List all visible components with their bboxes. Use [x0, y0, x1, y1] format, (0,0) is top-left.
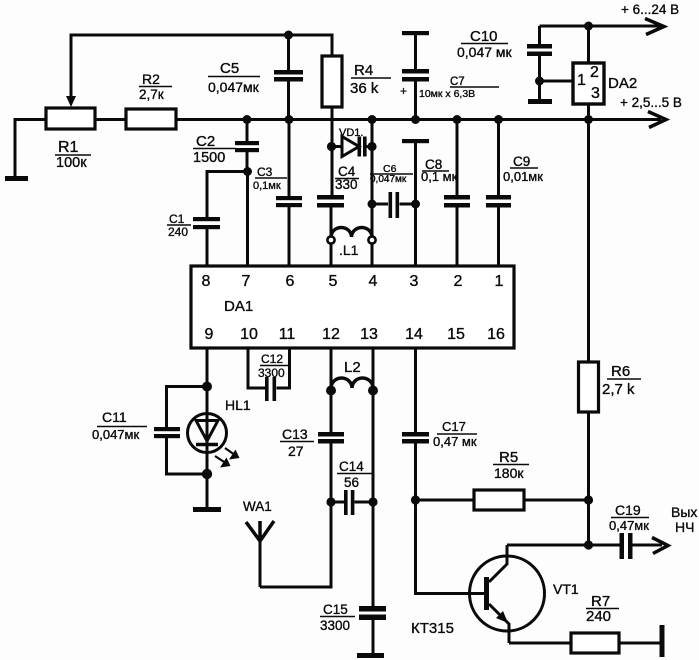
svg-text:C19: C19 — [615, 502, 641, 518]
svg-text:5: 5 — [329, 273, 338, 290]
LED light arrow 1 — [225, 448, 237, 457]
svg-text:C2: C2 — [196, 133, 215, 150]
wire main +2.5..5V bus — [176, 118, 661, 121]
svg-text:13: 13 — [360, 326, 378, 343]
svg-text:WA1: WA1 — [243, 499, 272, 514]
svg-text:DA2: DA2 — [608, 75, 637, 92]
svg-text:0,47мк: 0,47мк — [609, 518, 649, 533]
node C17 bottom / R5 left — [411, 495, 420, 504]
wire C10 bottom to ground — [538, 81, 541, 99]
svg-text:R6: R6 — [611, 363, 630, 380]
svg-text:C11: C11 — [102, 409, 127, 425]
wire R5 left — [416, 499, 475, 502]
wire pin9 column down — [206, 348, 209, 413]
node C6 right — [411, 200, 420, 209]
wire junction to C1 elbow — [207, 172, 248, 218]
capacitor C10 — [538, 26, 541, 81]
wire pin3 column with top stub — [402, 139, 429, 143]
svg-text:+ 2,5...5 В: + 2,5...5 В — [620, 95, 682, 110]
svg-text:C13: C13 — [282, 426, 308, 442]
node HL1 bottom junction — [202, 469, 212, 479]
regulator DA2 — [573, 63, 604, 104]
svg-text:0,47 мк: 0,47 мк — [433, 434, 477, 449]
ground (under C10) — [528, 99, 552, 104]
svg-text:C10: C10 — [470, 28, 498, 45]
pin numbers top row — [202, 273, 504, 290]
capacitor C5 — [287, 35, 290, 120]
node VD1 cathode — [367, 142, 376, 151]
wire R4 bottom through bus to VD1 anode — [331, 107, 334, 195]
svg-text:9: 9 — [205, 326, 214, 343]
svg-text:DA1: DA1 — [224, 298, 253, 315]
svg-text:0,047мк: 0,047мк — [370, 174, 407, 185]
svg-text:6: 6 — [286, 273, 295, 290]
potentiometer R1 wiper arrow — [66, 96, 76, 107]
svg-text:3300: 3300 — [320, 618, 350, 633]
transistor VT1 — [470, 556, 545, 631]
arrow +6...24 В input — [645, 19, 664, 35]
svg-text:C12: C12 — [261, 352, 283, 366]
wire collector row — [507, 544, 589, 547]
svg-text:0,1 мк: 0,1 мк — [421, 169, 458, 184]
svg-text:C14: C14 — [339, 459, 364, 474]
svg-text:36 k: 36 k — [350, 80, 379, 97]
svg-text:.L1: .L1 — [339, 242, 359, 258]
svg-text:11: 11 — [279, 326, 296, 343]
node collector / C19 junction — [584, 540, 593, 549]
svg-text:10: 10 — [240, 326, 258, 343]
node C5 bottom on bus — [285, 115, 294, 124]
svg-text:VT1: VT1 — [553, 581, 579, 597]
node DA2 pin2 top — [584, 22, 593, 31]
LED HL1 — [188, 414, 227, 453]
node C8 on bus — [453, 115, 462, 124]
svg-text:0,01мк: 0,01мк — [503, 169, 543, 184]
wire pin7 column — [246, 172, 249, 267]
capacitor C6 — [372, 203, 416, 206]
svg-text:14: 14 — [405, 326, 423, 343]
node C14 right — [368, 497, 377, 506]
resistor R6 — [579, 362, 599, 412]
inductor L2 — [331, 348, 373, 390]
svg-text:R4: R4 — [354, 62, 373, 79]
IC DA1 — [191, 266, 514, 348]
wire HL1 bottom to ground — [206, 453, 209, 507]
svg-text:0,047 мк: 0,047 мк — [457, 44, 513, 60]
svg-text:C15: C15 — [323, 602, 348, 617]
node C10 bottom — [535, 77, 544, 86]
wire C11 top branch — [167, 387, 208, 428]
resistor R7 — [571, 633, 619, 653]
node pin9 / C11 top junction — [202, 382, 212, 392]
svg-text:3: 3 — [591, 85, 600, 102]
svg-text:2: 2 — [590, 64, 599, 81]
capacitor C13 — [330, 390, 333, 502]
svg-text:8: 8 — [202, 273, 211, 290]
svg-text:1: 1 — [577, 72, 586, 89]
terminal bar right of R7 — [660, 625, 665, 657]
svg-text:16: 16 — [487, 326, 505, 343]
svg-text:L2: L2 — [344, 359, 361, 376]
svg-text:R1: R1 — [58, 139, 79, 156]
svg-text:27: 27 — [288, 443, 304, 459]
inductor L1 — [331, 227, 372, 237]
capacitor C15 — [359, 606, 386, 612]
wire R1 left to ground — [15, 120, 46, 177]
pin numbers bottom row — [205, 326, 505, 343]
svg-text:+ 6...24 В: + 6...24 В — [621, 2, 679, 17]
capacitor C1 — [193, 217, 220, 221]
capacitor C11 — [154, 427, 180, 431]
svg-text:12: 12 — [322, 326, 340, 343]
arrow output Вых НЧ — [652, 538, 668, 554]
capacitor C2 — [246, 120, 249, 172]
wire pin4 column — [371, 120, 374, 267]
svg-text:0,047мк: 0,047мк — [208, 79, 260, 95]
node C2 top on bus — [243, 115, 252, 124]
capacitor C7 electrolytic — [402, 31, 429, 35]
wire R5 right — [524, 499, 589, 502]
node C2 bottom junction — [243, 167, 252, 176]
ground (under C15) — [357, 653, 384, 658]
capacitor C3 — [288, 120, 291, 267]
node R5 right on R6 column — [584, 495, 593, 504]
svg-text:C1: C1 — [169, 212, 185, 226]
node pin4 column on bus — [368, 115, 377, 124]
diode VD1 (varicap) — [331, 145, 372, 148]
node VD1 anode — [327, 142, 336, 151]
svg-text:0,047мк: 0,047мк — [92, 427, 139, 442]
node C7 on bus — [411, 115, 420, 124]
svg-text:7: 7 — [242, 273, 251, 290]
capacitor C14 between columns 12 and 13 — [331, 501, 373, 504]
resistor R2 — [126, 109, 176, 129]
svg-text:+: + — [400, 84, 407, 98]
svg-text:R5: R5 — [499, 449, 518, 466]
svg-text:C17: C17 — [442, 419, 466, 434]
svg-text:2: 2 — [454, 273, 463, 290]
svg-text:0,1мк: 0,1мк — [253, 180, 281, 192]
svg-text:3300: 3300 — [258, 366, 285, 380]
wire R6 column — [587, 120, 590, 546]
node C14 left — [326, 497, 335, 506]
capacitor C9 — [497, 120, 500, 267]
svg-text:C9: C9 — [513, 154, 530, 169]
node DA2 pin3 on bus — [584, 115, 593, 124]
wire DA2 pin3 down to bus — [587, 104, 590, 120]
ground (left) — [5, 176, 28, 181]
svg-text:HL1: HL1 — [225, 397, 251, 413]
resistor R1 (potentiometer body) — [46, 108, 95, 129]
svg-text:КТ315: КТ315 — [411, 620, 454, 637]
svg-text:56: 56 — [344, 475, 359, 490]
svg-text:4: 4 — [369, 273, 378, 290]
svg-text:2,7 k: 2,7 k — [602, 381, 635, 398]
svg-text:C5: C5 — [220, 60, 239, 77]
wire top feedback from R1 wiper to C5/R4 — [71, 35, 332, 98]
svg-text:100к: 100к — [56, 155, 87, 171]
svg-text:330: 330 — [335, 177, 358, 192]
wire column 12 down to antenna elbow — [260, 502, 331, 587]
svg-text:НЧ: НЧ — [675, 519, 694, 535]
svg-text:C3: C3 — [257, 165, 273, 179]
wire R1 to R2 — [95, 118, 126, 121]
svg-text:1: 1 — [495, 273, 504, 290]
svg-text:1500: 1500 — [193, 150, 225, 166]
resistor R4 — [322, 56, 342, 107]
svg-text:15: 15 — [447, 326, 465, 343]
capacitor C12 between pins 10 and 11 — [248, 348, 290, 388]
svg-text:Вых: Вых — [671, 504, 697, 520]
node C9 on bus — [494, 115, 503, 124]
node C6 left — [368, 200, 377, 209]
svg-text:VD1.: VD1. — [339, 127, 363, 139]
antenna WA1 — [246, 521, 274, 541]
wire R7 right to terminal — [619, 642, 660, 645]
resistor R5 — [474, 490, 524, 510]
node C5 top — [284, 31, 293, 40]
wire C10 bottom to DA2 pin1 — [540, 80, 574, 83]
capacitor C8 — [456, 120, 459, 267]
svg-text:R2: R2 — [142, 71, 160, 87]
wire DA2 pin2 up — [587, 26, 590, 63]
svg-text:10мк х 6,3В: 10мк х 6,3В — [419, 88, 475, 100]
LED light arrow 2 — [215, 456, 228, 465]
wire C10 top to +6..24V arrow — [540, 25, 661, 28]
svg-text:180к: 180к — [494, 465, 524, 481]
svg-text:240: 240 — [168, 225, 188, 239]
capacitor C17 — [414, 348, 417, 500]
svg-text:C7: C7 — [450, 76, 465, 88]
capacitor C19 — [589, 544, 663, 547]
svg-text:3: 3 — [410, 273, 419, 290]
arrow +2,5...5 В output — [648, 112, 666, 128]
wire column 13 down — [372, 390, 375, 607]
wire base from column 14 — [416, 500, 485, 594]
capacitor C4 — [317, 195, 344, 200]
ground (under HL1) — [193, 507, 221, 512]
wire emitter to R7 — [509, 642, 571, 645]
svg-text:2,7к: 2,7к — [139, 87, 164, 102]
svg-text:240: 240 — [586, 608, 611, 625]
